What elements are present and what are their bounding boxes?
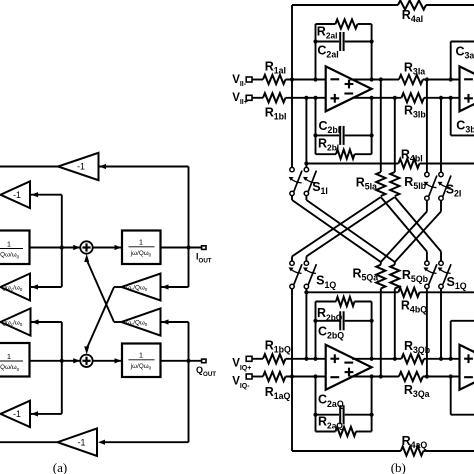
svg-text:-1: -1 — [13, 409, 21, 419]
svg-text:1: 1 — [139, 351, 143, 360]
svg-text:ωc/Qω0: ωc/Qω0 — [126, 284, 148, 292]
svg-text:ωc/Qω0: ωc/Qω0 — [126, 319, 148, 327]
svg-text:(b): (b) — [391, 460, 406, 474]
svg-text:1: 1 — [139, 238, 143, 247]
svg-text:(a): (a) — [53, 460, 67, 474]
svg-text:1: 1 — [7, 239, 11, 248]
svg-text:-1: -1 — [78, 437, 86, 447]
svg-text:jω/Qω0: jω/Qω0 — [130, 363, 152, 371]
svg-text:1: 1 — [7, 352, 11, 361]
svg-text:-1: -1 — [77, 162, 85, 172]
svg-text:jω/Qω0: jω/Qω0 — [130, 250, 152, 258]
svg-text:-1: -1 — [13, 190, 21, 200]
